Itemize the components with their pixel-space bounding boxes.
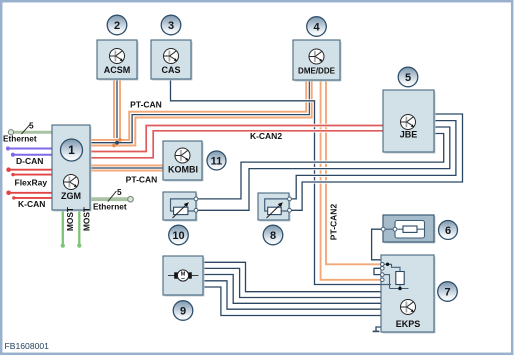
svg-text:11: 11 — [211, 155, 223, 167]
fuse F1 internal lead — [383, 228, 424, 230]
pin: sensor 10 upper pin — [194, 197, 198, 201]
node: MOST terminator 2 — [77, 244, 81, 248]
svg-text:Ethernet: Ethernet — [3, 134, 37, 144]
transistor icon JBE — [401, 115, 416, 130]
node: EKPS junction A — [386, 263, 389, 266]
node 9 ball — [173, 301, 193, 321]
svg-text:PT-CAN: PT-CAN — [126, 175, 158, 185]
wire: Ethernet stub left of ZGM — [11, 131, 52, 134]
svg-text:6: 6 — [445, 225, 451, 237]
svg-text:FlexRay: FlexRay — [15, 178, 48, 188]
node: FlexRay terminator 1 — [6, 167, 11, 172]
node 4 ball — [307, 17, 327, 37]
EKPS internal: resistor bottom lead and rail — [382, 275, 409, 289]
svg-text:10: 10 — [172, 230, 184, 242]
svg-text:D-CAN: D-CAN — [16, 156, 43, 166]
fuse F1 body — [403, 226, 417, 232]
pin: fuse inner pin — [393, 227, 397, 231]
wire: CAS to EKPS line — [171, 79, 383, 285]
wire: PT-CAN bus DME/DDE to ZGM, orange low line — [90, 80, 312, 146]
wire: Ethernet stub right of ZGM — [90, 197, 128, 201]
svg-text:DME/DDE: DME/DDE — [298, 67, 336, 76]
wire: K-CAN2 ZGM to JBE, lower red — [90, 131, 383, 158]
sensor box 10 — [163, 192, 198, 222]
wire: sensor 8 lower line to JBE — [290, 114, 463, 210]
pin: fuse outer pin — [381, 227, 385, 231]
transistor icon ZGM — [64, 175, 79, 190]
svg-text:EKPS: EKPS — [396, 319, 421, 329]
node: K-CAN terminator 2 — [12, 196, 15, 199]
wire: PT-CAN bus DME/DDE to ZGM, navy middle line — [90, 80, 309, 143]
svg-text:CAS: CAS — [161, 65, 180, 75]
ground: EKPS terminal bar — [373, 330, 380, 332]
node 6 ball — [439, 221, 458, 240]
control unit ACSM box (2) — [97, 40, 139, 81]
EKPS internal: resistor body — [396, 272, 404, 285]
node: PT-CAN junction orange top — [118, 138, 122, 142]
wire: K-CAN stub line 2 — [14, 197, 52, 199]
svg-text:FB1608001: FB1608001 — [5, 341, 50, 351]
node: PT-CAN junction navy — [115, 141, 119, 145]
svg-text:5: 5 — [117, 187, 122, 197]
svg-text:ZGM: ZGM — [61, 191, 81, 201]
control unit ZGM box (1) — [52, 125, 92, 212]
svg-text:8: 8 — [270, 230, 276, 242]
wire: FlexRay stub line 2 — [13, 174, 52, 176]
wire: EKPS external jumper pins B-C — [374, 268, 382, 274]
svg-text:2: 2 — [114, 20, 120, 32]
control unit JBE box (5) — [383, 90, 436, 154]
svg-text:MOST: MOST — [65, 207, 75, 231]
node: FlexRay terminator 2 — [11, 173, 14, 176]
svg-text:K-CAN: K-CAN — [18, 199, 45, 209]
node: K-CAN terminator 1 — [6, 191, 11, 196]
sensor box 8 — [258, 193, 291, 222]
wire: PT-CAN ZGM to KOMBI orange high — [90, 164, 163, 166]
pin: EKPS pin C — [381, 273, 385, 277]
wire: MOST line 2 below ZGM — [78, 210, 80, 245]
resistor R10 body — [174, 207, 188, 214]
wire: sensor 8 upper line to JBE — [290, 121, 456, 199]
wire: pump motor 9 line 4 to EKPS — [203, 281, 382, 309]
node: D-CAN terminator 1 — [6, 146, 10, 150]
node: Ethernet right connector — [128, 196, 134, 202]
node 5 ball — [398, 67, 418, 87]
wire: PT-CAN2 DME/DDE to EKPS, orange line A — [321, 80, 382, 280]
wire: sensor 10 upper line to JBE — [196, 134, 444, 199]
pin: EKPS pin D — [381, 278, 385, 282]
svg-text:7: 7 — [444, 286, 450, 298]
transistor icon ACSM — [110, 49, 125, 64]
wire: PT-CAN bus DME/DDE to ZGM, orange high line — [90, 80, 306, 140]
control unit EKPS box (7) — [381, 255, 436, 334]
control unit KOMBI box (11) — [163, 141, 204, 182]
svg-text:MOST: MOST — [82, 207, 92, 231]
pin: EKPS pin B — [381, 267, 385, 271]
node 3 ball — [161, 15, 181, 35]
wire: EKPS ground lead — [376, 327, 382, 331]
node 7 ball — [438, 282, 458, 302]
control unit CAS box (3) — [151, 40, 193, 81]
node: D-CAN terminator 2 — [11, 153, 15, 157]
wire: fuse 6 to EKPS — [372, 229, 385, 264]
svg-text:4: 4 — [313, 21, 320, 33]
svg-text:∼: ∼ — [181, 276, 185, 282]
motor M9 brush bars — [174, 272, 177, 278]
svg-text:K-CAN2: K-CAN2 — [250, 131, 282, 141]
transistor icon KOMBI — [175, 148, 190, 163]
svg-text:JBE: JBE — [400, 130, 418, 140]
resistor R10 arrow — [173, 204, 188, 219]
node 2 ball — [107, 15, 127, 35]
svg-text:KOMBI: KOMBI — [168, 165, 198, 175]
wire: D-CAN stub line 1 — [8, 148, 52, 150]
fuse box 6 — [383, 215, 436, 244]
transistor icon EKPS — [401, 300, 416, 315]
svg-text:PT-CAN2: PT-CAN2 — [329, 204, 339, 241]
wire: PT-CAN2 DME/DDE to EKPS, orange line B — [326, 80, 382, 264]
motor M9 rotor circle — [177, 270, 188, 281]
svg-text:5: 5 — [405, 72, 411, 84]
svg-text:1: 1 — [68, 143, 75, 157]
node 10 ball — [169, 225, 189, 245]
pump motor box 9 — [163, 256, 205, 297]
pin: EKPS pin A — [381, 263, 385, 267]
resistor R8 internal loop wire — [265, 199, 289, 211]
wire: FlexRay stub line 1 — [9, 169, 52, 171]
svg-text:ACSM: ACSM — [104, 65, 131, 75]
wire: pump motor 9 line 5 to EKPS — [203, 287, 382, 316]
resistor R8 body — [268, 207, 282, 214]
wire: K-CAN2 ZGM to JBE, upper red — [90, 126, 383, 152]
resistor R8 arrow — [267, 204, 282, 219]
svg-text:9: 9 — [180, 305, 186, 317]
node 1 ball — [61, 139, 83, 161]
node: PT-CAN junction orange bottom — [112, 144, 116, 148]
wire: pump motor 9 line 3 to EKPS — [203, 275, 382, 304]
EKPS internal: pin A wire and junction — [382, 264, 400, 271]
wire: pump motor 9 line 1 to EKPS — [203, 262, 382, 291]
pin: sensor 8 lower pin — [288, 208, 292, 212]
transistor icon DME/DDE — [309, 49, 324, 64]
pin: sensor 8 upper pin — [288, 197, 292, 201]
wire: CAS line stub inside EKPS — [381, 284, 391, 286]
wire: PT-CAN ZGM to KOMBI orange low — [90, 170, 163, 172]
motor M9 lead line — [168, 275, 198, 277]
wire: D-CAN stub line 2 — [13, 154, 52, 156]
wire: pump motor 9 line 2 to EKPS — [203, 268, 382, 297]
wire: PT-CAN ZGM to KOMBI navy — [90, 167, 163, 169]
svg-text:PT-CAN: PT-CAN — [130, 100, 162, 110]
wire: K-CAN stub line 1 — [9, 192, 52, 194]
svg-text:3: 3 — [168, 20, 174, 32]
node: Ethernet left connector — [8, 130, 13, 135]
node 11 ball — [207, 151, 226, 170]
node: MOST terminator 1 — [61, 244, 65, 248]
wire: sensor 10 lower line to JBE — [196, 127, 450, 210]
svg-text:Ethernet: Ethernet — [93, 202, 127, 212]
node 8 ball — [263, 225, 283, 245]
wire: ACSM PT-CAN drop verticals (orange/navy/orange) — [114, 79, 120, 146]
control unit DME/DDE box (4) — [293, 40, 342, 82]
wire: MOST line 1 below ZGM — [62, 210, 64, 245]
resistor R10 internal loop wire — [171, 199, 196, 211]
pin: sensor 10 lower pin — [194, 208, 198, 212]
node: EKPS junction B — [398, 287, 401, 290]
transistor icon CAS — [164, 49, 179, 64]
